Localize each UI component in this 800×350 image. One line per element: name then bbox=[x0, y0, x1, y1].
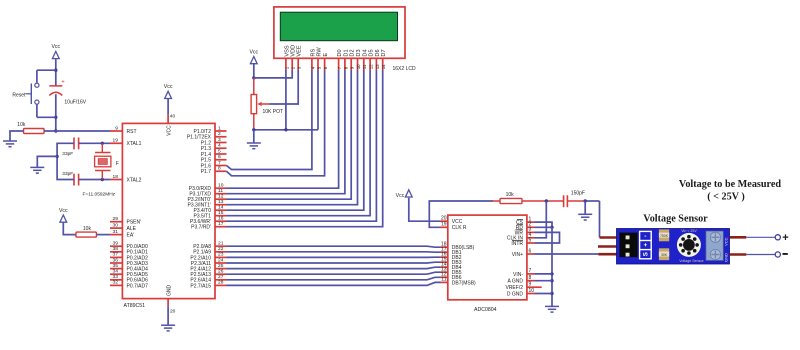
svg-text:33pF: 33pF bbox=[62, 151, 73, 157]
ADC pin 14 DB4 bbox=[441, 266, 448, 268]
MCU pin 37 P0.2/AD2 bbox=[110, 256, 122, 258]
svg-text:4: 4 bbox=[218, 143, 221, 149]
svg-text:7: 7 bbox=[218, 160, 221, 166]
svg-text:15: 15 bbox=[218, 210, 224, 216]
svg-text:A GND: A GND bbox=[507, 279, 523, 285]
LCD pin 7 D0 bbox=[338, 58, 340, 70]
svg-text:8: 8 bbox=[529, 275, 532, 281]
LCD pin 11 D4 bbox=[363, 58, 365, 70]
power Vcc bbox=[164, 84, 173, 98]
svg-text:37: 37 bbox=[113, 252, 119, 258]
svg-text:E: E bbox=[323, 53, 329, 57]
LCD pin 10 D3 bbox=[357, 58, 359, 70]
svg-text:17: 17 bbox=[218, 221, 224, 227]
svg-text:150pF: 150pF bbox=[571, 190, 585, 196]
svg-text:7: 7 bbox=[529, 268, 532, 274]
svg-text:34: 34 bbox=[113, 269, 119, 275]
ADC pin 13 DB5 bbox=[441, 271, 448, 273]
ground stem at 150pF bbox=[584, 201, 586, 214]
svg-text:16: 16 bbox=[218, 216, 224, 222]
svg-text:20: 20 bbox=[441, 216, 447, 222]
LCD LCD1 16X2 display body bbox=[274, 7, 405, 58]
ADC pin 7 VIN- bbox=[527, 273, 535, 275]
svg-text:D5: D5 bbox=[369, 49, 375, 56]
svg-text:Reset: Reset bbox=[12, 93, 26, 99]
MCU pin 29 PSEN' bbox=[110, 221, 122, 223]
svg-text:3: 3 bbox=[218, 137, 221, 143]
svg-text:5: 5 bbox=[218, 148, 221, 154]
svg-text:5: 5 bbox=[529, 237, 532, 243]
wire XTAL1 net bbox=[79, 142, 110, 144]
capacitor C1 33pF bbox=[74, 138, 79, 150]
svg-text:2: 2 bbox=[218, 131, 221, 137]
MCU pin 7 P1.6 bbox=[215, 165, 227, 167]
wire sensor minus lead bbox=[600, 236, 617, 239]
ADC pin 9 VREF/2 stub extension bbox=[535, 286, 542, 288]
ground bbox=[3, 141, 17, 147]
wire P2.3 to DB3 bbox=[227, 261, 441, 264]
wire 10k to clock node bbox=[522, 200, 546, 202]
wire LCD RW to ground rail bbox=[317, 70, 319, 130]
wire D7 to P3.7 bbox=[227, 70, 383, 227]
wire ADC ground bus bbox=[551, 227, 553, 306]
svg-text:P3.7/RD': P3.7/RD' bbox=[191, 225, 211, 231]
MCU pin 22 P2.1/A9 bbox=[215, 251, 227, 253]
MCU pin 24 P2.3/A11 bbox=[215, 262, 227, 264]
power Vcc bbox=[396, 190, 413, 199]
wire P2.5 to DB5 bbox=[227, 272, 441, 274]
svg-text:P1.7: P1.7 bbox=[201, 169, 212, 175]
wire ground rail bbox=[254, 129, 318, 131]
IC U2 ADC0804 body bbox=[448, 215, 527, 300]
sensor resistor R5 smd bbox=[659, 229, 669, 241]
svg-text:29: 29 bbox=[113, 216, 119, 222]
MCU pin 28 P2.7/A15 bbox=[215, 284, 227, 286]
svg-text:PSEN': PSEN' bbox=[127, 220, 142, 226]
MCU pin 20 GND stub bbox=[167, 299, 169, 307]
svg-text:28: 28 bbox=[218, 280, 224, 286]
wire P2.7 to DB7 bbox=[227, 282, 441, 285]
MCU pin 17 P3.7/RD' bbox=[215, 226, 227, 228]
MCU pin 21 P2.0/A8 bbox=[215, 245, 227, 247]
svg-text:RS: RS bbox=[310, 49, 316, 57]
svg-text:VSS: VSS bbox=[284, 45, 290, 56]
svg-text:10: 10 bbox=[218, 183, 224, 189]
svg-text:VCC: VCC bbox=[167, 125, 173, 136]
IC U1 AT89C51 microcontroller body bbox=[122, 123, 215, 298]
wire Vcc to EA resistor bbox=[63, 222, 76, 234]
svg-text:XTAL1: XTAL1 bbox=[127, 141, 142, 147]
potentiometer RV1 10K POT bbox=[251, 78, 269, 130]
svg-text:GND: GND bbox=[724, 253, 729, 262]
svg-text:40: 40 bbox=[170, 114, 176, 120]
ADC pin 11 DB7(MSB) bbox=[441, 281, 448, 283]
MCU pin 6 P1.5 bbox=[215, 159, 227, 161]
resistor R1 10k reset pulldown bbox=[24, 129, 45, 134]
svg-text:14: 14 bbox=[218, 205, 224, 211]
svg-text:36: 36 bbox=[113, 257, 119, 263]
sensor resistor R6 smd bbox=[659, 248, 669, 260]
svg-text:10k: 10k bbox=[17, 122, 26, 128]
svg-text:INTR: INTR bbox=[511, 241, 523, 247]
svg-text:D1: D1 bbox=[343, 49, 349, 56]
svg-text:D6: D6 bbox=[375, 49, 381, 56]
svg-text:6: 6 bbox=[529, 248, 532, 254]
svg-text:Vcc: Vcc bbox=[396, 193, 405, 199]
wire P2.2 to DB2 bbox=[227, 256, 441, 258]
wire VIN- to bus bbox=[535, 273, 553, 275]
svg-text:14: 14 bbox=[381, 64, 386, 69]
svg-text:VCC: VCC bbox=[452, 219, 463, 225]
svg-text:1: 1 bbox=[218, 125, 221, 131]
svg-text:12: 12 bbox=[218, 194, 224, 200]
LCD screen bbox=[280, 12, 397, 41]
svg-text:19: 19 bbox=[441, 222, 447, 228]
MCU pin 33 P0.6/AD6 bbox=[110, 279, 122, 281]
svg-text:10: 10 bbox=[356, 64, 361, 69]
MCU pin 30 ALE bbox=[110, 227, 122, 229]
svg-text:F=11.0592MHz: F=11.0592MHz bbox=[83, 192, 116, 198]
wire D3 to P3.3 bbox=[227, 70, 358, 205]
svg-text:GND: GND bbox=[167, 285, 173, 297]
svg-text:18: 18 bbox=[113, 174, 119, 180]
ADC pin 4 CLK IN bbox=[527, 237, 535, 239]
svg-text:38: 38 bbox=[113, 246, 119, 252]
svg-text:39: 39 bbox=[113, 241, 119, 247]
ADC pin 5 INTR bbox=[527, 242, 535, 244]
terminal + node bbox=[775, 235, 780, 240]
svg-text:D2: D2 bbox=[350, 49, 356, 56]
svg-text:Vcc: Vcc bbox=[59, 208, 68, 214]
MCU pin 36 P0.3/AD3 bbox=[110, 262, 122, 264]
svg-text:VEE: VEE bbox=[297, 45, 303, 56]
LCD pin 5 RW bbox=[317, 58, 319, 70]
wire WR to INTR bracket bbox=[535, 232, 560, 243]
svg-text:27: 27 bbox=[218, 274, 224, 280]
MCU pin 13 P3.3/INT1' bbox=[215, 204, 227, 206]
wire pot wiper to LCD VEE bbox=[270, 70, 299, 104]
ADC pin 2 RD bbox=[527, 226, 535, 228]
svg-text:F: F bbox=[116, 161, 119, 167]
MCU pin 35 P0.4/AD4 bbox=[110, 268, 122, 270]
MCU pin 18 XTAL2 bbox=[110, 179, 122, 181]
ADC pin 12 DB6 bbox=[441, 276, 448, 278]
wire D0 to P3.0 bbox=[227, 70, 339, 188]
resistor R3 10k ADC clock bbox=[500, 198, 522, 203]
ADC pin 16 DB2 bbox=[441, 256, 448, 258]
wire A GND to bus bbox=[535, 280, 553, 282]
svg-text:10uF/16V: 10uF/16V bbox=[64, 99, 86, 105]
svg-text:35: 35 bbox=[113, 263, 119, 269]
svg-text:30K: 30K bbox=[661, 253, 668, 257]
wire D1 to P3.1 bbox=[227, 70, 345, 194]
wire bbox=[167, 99, 169, 115]
MCU pin 23 P2.2/A10 bbox=[215, 256, 227, 258]
svg-text:23: 23 bbox=[218, 252, 224, 258]
svg-text:21: 21 bbox=[218, 241, 224, 247]
MCU pin 2 P1.1/T2EX bbox=[215, 136, 227, 138]
ADC pin 8 A GND bbox=[527, 280, 535, 282]
svg-text:33: 33 bbox=[113, 274, 119, 280]
svg-text:ALE: ALE bbox=[127, 226, 137, 232]
svg-text:13: 13 bbox=[375, 64, 380, 69]
MCU pin 16 P3.6/WR' bbox=[215, 220, 227, 222]
ground bbox=[161, 325, 175, 331]
svg-text:P0.7/AD7: P0.7/AD7 bbox=[127, 283, 149, 289]
svg-text:+: + bbox=[61, 79, 65, 85]
svg-text:D4: D4 bbox=[362, 49, 368, 56]
ADC pin 6 VIN+ bbox=[527, 253, 535, 255]
crystal X1 11.0592MHz bbox=[95, 143, 111, 179]
MCU pin 34 P0.5/AD5 bbox=[110, 273, 122, 275]
MCU pin 38 P0.1/AD1 bbox=[110, 251, 122, 253]
wire ground node to sensor minus bbox=[599, 201, 601, 238]
svg-text:26: 26 bbox=[218, 269, 224, 275]
wire CLK R to 10k bbox=[429, 201, 493, 227]
ADC pin 1 CS bbox=[527, 221, 535, 223]
MCU pin 25 P2.4/A12 bbox=[215, 268, 227, 270]
power Vcc bbox=[249, 49, 258, 63]
wire clock node to CLK IN bbox=[535, 201, 547, 238]
wire RST net bbox=[44, 130, 110, 132]
wire cap to RST line bbox=[55, 94, 57, 131]
MCU pin 11 P3.1/TXD bbox=[215, 193, 227, 195]
svg-text:Vcc: Vcc bbox=[51, 44, 60, 50]
svg-text:VCC: VCC bbox=[724, 237, 729, 246]
MCU pin 9 RST bbox=[110, 130, 122, 132]
svg-text:6: 6 bbox=[218, 154, 221, 160]
MCU pin 4 P1.3 bbox=[215, 147, 227, 149]
ADC pin 17 DB1 bbox=[441, 251, 448, 253]
wire bbox=[167, 306, 169, 325]
svg-text:31: 31 bbox=[113, 229, 119, 235]
svg-text:VREF/2: VREF/2 bbox=[505, 285, 523, 291]
LCD pin 6 E bbox=[324, 58, 326, 70]
svg-text:33pF: 33pF bbox=[62, 171, 73, 177]
wire D GND to bus bbox=[535, 293, 553, 295]
svg-text:9: 9 bbox=[115, 125, 118, 131]
MCU pin 12 P3.2/INT0' bbox=[215, 198, 227, 200]
ground bbox=[578, 214, 592, 220]
MCU pin 10 P3.0/RXD bbox=[215, 187, 227, 189]
wire VIN+ to sensor S bbox=[535, 253, 599, 255]
svg-text:D3: D3 bbox=[356, 49, 362, 56]
svg-text:D0: D0 bbox=[337, 49, 343, 56]
svg-text:Vin < 25V: Vin < 25V bbox=[681, 229, 697, 233]
LCD pin 9 D2 bbox=[350, 58, 352, 70]
LCD pin 1 VSS bbox=[285, 58, 287, 70]
wire sensor GND output bbox=[730, 253, 747, 256]
MCU pin 26 P2.5/A13 bbox=[215, 273, 227, 275]
wire Vcc to ADC VCC bbox=[409, 198, 441, 222]
resistor R2 10k EA pull-up bbox=[76, 232, 97, 237]
wire E to P1.7 bbox=[227, 70, 325, 176]
LCD pin 8 D1 bbox=[344, 58, 346, 70]
svg-text:+: + bbox=[782, 232, 788, 244]
wire D4 to P3.4 bbox=[227, 70, 364, 210]
svg-text:25: 25 bbox=[218, 263, 224, 269]
svg-text:VIN-: VIN- bbox=[513, 272, 523, 278]
svg-text:13: 13 bbox=[218, 199, 224, 205]
svg-text:RST: RST bbox=[127, 129, 137, 135]
svg-text:10k: 10k bbox=[506, 192, 515, 198]
wire to EA pin bbox=[97, 234, 111, 236]
wire sensor VCC output bbox=[730, 236, 747, 239]
sensor -/+/S labels bbox=[640, 231, 652, 258]
sensor trimmer potentiometer bbox=[677, 233, 701, 257]
svg-text:D7: D7 bbox=[381, 49, 387, 56]
svg-text:AT89C51: AT89C51 bbox=[124, 303, 146, 309]
ADC pin 3 WR bbox=[527, 231, 535, 233]
wire D5 to P3.5 bbox=[227, 70, 371, 216]
svg-text:-: - bbox=[644, 233, 646, 240]
MCU pin 1 P1.0/T2 bbox=[215, 130, 227, 132]
capacitor C3 10uF/16V bbox=[49, 79, 65, 95]
sensor terminal block bbox=[706, 231, 723, 260]
MCU pin 32 P0.7/AD7 bbox=[110, 284, 122, 286]
push button Reset bbox=[26, 70, 56, 117]
wire XTAL2 net bbox=[79, 179, 110, 181]
ground bbox=[545, 306, 559, 312]
svg-text:P2.7/A15: P2.7/A15 bbox=[190, 283, 211, 289]
wire sensor plus lead bbox=[598, 245, 617, 248]
svg-text:EA': EA' bbox=[127, 233, 135, 239]
power Vcc bbox=[51, 44, 60, 58]
wire CS to RD bus bbox=[535, 222, 553, 227]
MCU pin 8 P1.7 bbox=[215, 170, 227, 172]
MCU pin 31 EA' bbox=[110, 234, 122, 236]
svg-text:9: 9 bbox=[529, 282, 532, 288]
LCD pin 3 VEE bbox=[297, 58, 299, 70]
svg-text:CLK R: CLK R bbox=[452, 225, 467, 231]
sensor 3-pin connector bbox=[619, 233, 637, 258]
terminal - node bbox=[775, 252, 780, 257]
svg-text:750K: 750K bbox=[660, 234, 669, 238]
svg-text:16X2 LCD: 16X2 LCD bbox=[393, 66, 416, 72]
wire Vcc to pot bbox=[253, 64, 255, 78]
svg-text:Voltage Sensor: Voltage Sensor bbox=[643, 213, 708, 224]
svg-text:VIN+: VIN+ bbox=[512, 252, 523, 258]
MCU pin 15 P3.5/T1 bbox=[215, 215, 227, 217]
ground bbox=[247, 143, 261, 149]
MCU pin 39 P0.0/AD0 bbox=[110, 245, 122, 247]
svg-text:RW: RW bbox=[317, 47, 323, 57]
svg-text:D GND: D GND bbox=[507, 291, 524, 297]
wire P2.1 to DB1 bbox=[227, 251, 441, 253]
ADC pin 10 D GND bbox=[527, 293, 535, 295]
svg-text:S: S bbox=[643, 252, 650, 256]
svg-text:32: 32 bbox=[113, 280, 119, 286]
svg-text:+: + bbox=[643, 242, 647, 249]
MCU pin 3 P1.2 bbox=[215, 142, 227, 144]
svg-text:Voltage to be Measured: Voltage to be Measured bbox=[679, 179, 781, 190]
wire P2.6 to DB6 bbox=[227, 277, 441, 280]
wire Vcc to LCD VDD bbox=[254, 70, 292, 78]
svg-text:XTAL2: XTAL2 bbox=[127, 177, 142, 183]
svg-text:24: 24 bbox=[218, 257, 224, 263]
svg-text:30: 30 bbox=[113, 222, 119, 228]
MCU pin 40 VCC stub bbox=[167, 114, 169, 123]
svg-text:10: 10 bbox=[529, 288, 535, 294]
svg-text:Vcc: Vcc bbox=[164, 84, 173, 90]
svg-text:10K POT: 10K POT bbox=[263, 109, 284, 115]
svg-text:Vcc: Vcc bbox=[249, 49, 258, 55]
svg-text:22: 22 bbox=[218, 246, 224, 252]
wire RS to P1.6 bbox=[227, 70, 312, 170]
svg-text:ADC0804: ADC0804 bbox=[474, 307, 497, 313]
svg-text:11: 11 bbox=[218, 188, 223, 194]
svg-text:12: 12 bbox=[369, 64, 374, 69]
LCD pin 2 VDD bbox=[291, 58, 293, 70]
wire Vcc to reset node bbox=[55, 59, 57, 86]
svg-text:Voltage Sensor: Voltage Sensor bbox=[679, 259, 704, 263]
svg-text:8: 8 bbox=[218, 166, 221, 172]
MCU pin 27 P2.6/A14 bbox=[215, 279, 227, 281]
svg-text:19: 19 bbox=[113, 138, 119, 144]
LCD pin 14 D7 bbox=[382, 58, 384, 70]
ground bbox=[30, 167, 44, 173]
wire caps to ground bbox=[57, 143, 74, 179]
ADC pin 15 DB3 bbox=[441, 261, 448, 263]
MCU pin 19 XTAL1 bbox=[110, 142, 122, 144]
wire resistor to ground bbox=[10, 131, 24, 141]
wire D6 to P3.6 bbox=[227, 70, 377, 221]
capacitor C4 150pF bbox=[564, 195, 568, 207]
wire pot bottom to ground bbox=[253, 130, 255, 143]
ADC pin 18 DB0(LSB) bbox=[441, 246, 448, 248]
wire P2.0 to DB0 bbox=[227, 246, 441, 247]
wire D2 to P3.2 bbox=[227, 70, 352, 199]
LCD pin 4 RS bbox=[311, 58, 313, 70]
MCU pin 14 P3.4/T0 bbox=[215, 209, 227, 211]
ADC pin 20 VCC bbox=[441, 220, 448, 222]
MCU pin 5 P1.4 bbox=[215, 153, 227, 155]
svg-text:10k: 10k bbox=[83, 226, 92, 232]
power Vcc bbox=[59, 208, 68, 222]
LCD pin 12 D5 bbox=[369, 58, 371, 70]
capacitor C2 33pF bbox=[74, 174, 79, 186]
svg-text:11: 11 bbox=[362, 64, 367, 69]
LCD pin 13 D6 bbox=[375, 58, 377, 70]
wire P2.4 to DB4 bbox=[227, 267, 441, 268]
wire LCD VSS to ground rail bbox=[285, 70, 287, 130]
ADC pin 19 CLK R bbox=[441, 226, 448, 228]
voltage sensor module board bbox=[617, 229, 730, 265]
svg-text:( < 25V ): ( < 25V ) bbox=[707, 191, 745, 202]
wire RD to bus bbox=[535, 226, 553, 228]
wire cap to ground node bbox=[567, 200, 585, 202]
svg-text:11: 11 bbox=[441, 277, 446, 283]
ADC pin 9 VREF/2 bbox=[527, 286, 535, 288]
svg-text:DB7(MSB): DB7(MSB) bbox=[452, 280, 476, 286]
svg-text:20: 20 bbox=[170, 309, 176, 315]
